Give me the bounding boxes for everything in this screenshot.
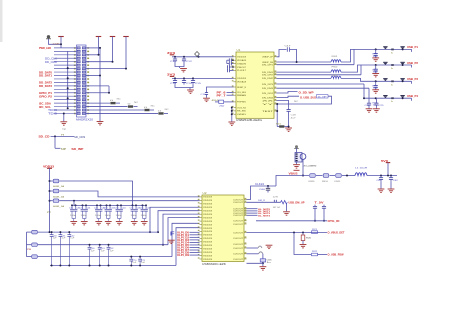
junction — [149, 231, 151, 233]
svg-text:2k0: 2k0 — [219, 105, 224, 107]
wire to FB4 — [50, 180, 53, 182]
junction — [231, 110, 233, 112]
wire to R12 — [86, 106, 128, 108]
svg-text:PLLFILT: PLLFILT — [237, 70, 247, 72]
resistor R12 — [128, 105, 133, 107]
wire to R15 — [215, 101, 219, 103]
capacitor C60 — [89, 245, 91, 266]
wire CPEN — [247, 253, 259, 255]
wire ULPI_D2 — [190, 236, 200, 238]
ground GND7 — [285, 128, 292, 131]
power flag VCC1V8 — [110, 36, 116, 38]
diode D13 — [383, 95, 387, 98]
junction — [288, 126, 290, 128]
svg-text:SD_CD9: SD_CD9 — [74, 135, 86, 139]
ground GND3 — [180, 69, 187, 72]
resistor R17 zigzag — [281, 201, 288, 204]
wire cap stub VBUS3 — [375, 81, 377, 83]
wire gnd stub left — [63, 113, 65, 121]
svg-text:CLKOUT: CLKOUT — [233, 215, 244, 217]
wire c64 low — [323, 208, 325, 221]
wire — [231, 108, 233, 122]
svg-text:GPIO_P1: GPIO_P1 — [39, 91, 53, 95]
wire DM out — [247, 201, 281, 203]
wire ID rail — [256, 220, 327, 222]
wire USBDN3 DM — [277, 87, 370, 89]
wire C16 gnd — [206, 94, 208, 97]
wire after R14 — [164, 112, 168, 114]
diode D10 — [383, 46, 387, 49]
wire CX3 — [230, 66, 234, 68]
capacitor CX4 horizontal — [228, 69, 230, 73]
diode D11 — [383, 62, 387, 65]
resistor hump RB1 — [258, 246, 262, 248]
svg-text:DN_DM1: DN_DM1 — [262, 72, 274, 74]
wire xtal gnd — [296, 162, 298, 164]
wire down — [54, 136, 56, 148]
wire to C18 — [277, 101, 289, 108]
wire cap stub VBUS2 — [375, 65, 377, 67]
capacitor C24 — [367, 101, 371, 107]
svg-text:C41: C41 — [87, 208, 91, 210]
svg-text:100p: 100p — [373, 88, 378, 90]
svg-text:O_USB_PSW: O_USB_PSW — [328, 253, 344, 257]
junction — [296, 61, 298, 63]
U1 left pin names — [237, 57, 247, 116]
svg-text:VDD33: VDD33 — [203, 207, 213, 209]
ground GND13 — [266, 245, 273, 248]
ground GND DM — [283, 212, 290, 215]
ground GND4 — [187, 90, 194, 93]
svg-text:600R_1A: 600R_1A — [53, 195, 65, 198]
diode D30 — [400, 46, 404, 49]
ground GND2 — [97, 122, 104, 125]
svg-text:k: k — [391, 84, 393, 86]
wire — [276, 104, 278, 127]
svg-text:XTALIN: XTALIN — [237, 62, 247, 65]
diode D23 — [391, 97, 394, 99]
junction — [267, 185, 269, 187]
wire STATUS1 — [277, 92, 298, 94]
junction — [67, 87, 69, 89]
wire to C65 — [262, 254, 264, 259]
svg-text:NC: NC — [165, 109, 170, 111]
inductor FB2 — [331, 70, 341, 72]
ground GNDc6 — [141, 222, 148, 225]
svg-text:DD_DAT2: DD_DAT2 — [39, 81, 53, 85]
svg-text:VDD33: VDD33 — [203, 252, 213, 254]
wire gnd stub — [179, 67, 181, 69]
wire pin row stub — [86, 85, 109, 87]
junction — [293, 232, 295, 234]
junction C50 — [51, 265, 53, 267]
svg-text:I2C_SCL: I2C_SCL — [39, 105, 51, 109]
crystal oscillator X1 — [295, 153, 302, 163]
capacitor C50 — [51, 232, 53, 265]
wire rail1 — [59, 181, 132, 205]
svg-text:DN_DP4: DN_DP4 — [262, 93, 274, 95]
ground GND1 — [60, 122, 67, 125]
junction — [145, 204, 147, 206]
ground GND8b — [373, 109, 380, 112]
svg-text:USB_P2: USB_P2 — [407, 61, 418, 65]
wire ULPI_D8 — [190, 252, 200, 254]
svg-text:DN_DP2: DN_DP2 — [262, 75, 274, 77]
svg-text:220R: 220R — [53, 44, 61, 46]
wire fan4 — [158, 211, 200, 232]
svg-text:100n: 100n — [131, 215, 137, 217]
wire — [26, 232, 28, 257]
junction — [231, 107, 233, 109]
wire gnd stub right — [99, 119, 101, 121]
wire VCCIO stub — [125, 37, 127, 69]
wire to R13 — [86, 109, 144, 111]
svg-text:SD_WP: SD_WP — [71, 147, 83, 151]
wire C65 gnd — [262, 263, 264, 266]
wire seg2 — [330, 175, 336, 177]
wire gnd stub pair 0 — [73, 219, 75, 222]
svg-text:USBUP_DP: USBUP_DP — [262, 57, 274, 59]
junction — [363, 97, 365, 99]
wire row end VBUS3 — [411, 81, 413, 84]
wire ULPI_D9 — [190, 254, 200, 256]
svg-text:DM_R: DM_R — [258, 200, 266, 202]
junction — [49, 180, 51, 182]
U1 right pin names — [262, 57, 276, 113]
wire pin row — [86, 75, 100, 77]
wire STATUS2 — [277, 96, 300, 97]
svg-text:VDD33: VDD33 — [203, 242, 213, 244]
svg-text:VDD33: VDD33 — [203, 211, 213, 213]
connector J1 body — [77, 45, 87, 117]
wire C24 gnd — [368, 107, 370, 108]
diode D21 — [391, 64, 394, 66]
capacitor C15 — [191, 78, 195, 84]
svg-text:VDD33: VDD33 — [203, 231, 213, 233]
wire stub down — [108, 86, 110, 93]
svg-text:CLKOUT: CLKOUT — [233, 202, 244, 204]
svg-text:O_USB_SUS: O_USB_SUS — [300, 95, 316, 99]
wire USBDN1_DM rail — [277, 74, 362, 76]
inductor L1 — [355, 173, 367, 176]
svg-text:NC: NC — [134, 102, 139, 104]
junction — [375, 80, 377, 82]
ferrite bead FB7 — [32, 230, 38, 234]
junction — [132, 204, 134, 206]
capacitor CX1 horizontal — [229, 58, 231, 62]
capacitor CX3 horizontal — [228, 65, 230, 69]
wire gnd stub pair 2 — [98, 219, 100, 222]
svg-text:CLKOUT: CLKOUT — [233, 259, 244, 261]
wire pin row to VCCIO — [86, 68, 126, 70]
capacitor C17 horizontal — [287, 47, 289, 52]
ground GNDc5 — [131, 222, 138, 225]
svg-text:F: F — [170, 232, 175, 238]
ferrite bead FB8 — [32, 243, 38, 247]
diode D12 — [383, 78, 387, 81]
junction — [375, 97, 377, 99]
ferrite bead FB6 — [53, 199, 59, 203]
resistor hump RB2 — [259, 252, 263, 254]
svg-text:C35: C35 — [130, 208, 134, 210]
capacitor C12 — [182, 57, 186, 63]
U2 left pin names — [203, 197, 213, 261]
svg-text:1k_NP: 1k_NP — [318, 96, 328, 98]
wire pin row to VCC1V8 — [86, 61, 113, 63]
wire USBUP_DP rail — [277, 61, 332, 63]
wire rail corner — [276, 176, 309, 187]
svg-text:PWR_LED: PWR_LED — [39, 46, 51, 50]
ground F gnd — [168, 240, 175, 243]
svg-text:GPIO_P2: GPIO_P2 — [39, 94, 53, 98]
wire VCC5V stub — [98, 37, 100, 55]
svg-text:TEST: TEST — [262, 111, 275, 113]
window edge strip — [0, 0, 3, 42]
svg-text:ULPI_D9: ULPI_D9 — [177, 255, 190, 257]
svg-text:100n: 100n — [105, 215, 111, 217]
ground GNDc1 — [81, 222, 88, 225]
ferrite bead FB4 — [53, 179, 59, 183]
junction — [390, 175, 392, 177]
wire vbus stub — [198, 56, 200, 57]
wire row VBUS4 — [364, 97, 412, 99]
svg-text:VDD33: VDD33 — [203, 200, 213, 202]
wire ULPI_D4 — [190, 241, 200, 243]
wire RESETB — [247, 247, 259, 249]
wire — [72, 204, 146, 206]
wire ULPI_D1 — [190, 234, 200, 236]
wire VBUS_DET — [247, 232, 328, 234]
connector J1 pins — [74, 47, 89, 115]
ground GND12 — [260, 267, 267, 270]
capacitor C21 — [374, 67, 378, 73]
diode D31 — [400, 62, 404, 65]
svg-text:RBIAS: RBIAS — [237, 94, 247, 97]
capacitor C65 — [260, 259, 265, 262]
junction — [375, 48, 377, 50]
svg-text:VDD33: VDD33 — [203, 235, 213, 237]
junction — [67, 107, 69, 109]
capacitor C62 — [108, 245, 110, 266]
svg-text:CLKOUT: CLKOUT — [233, 224, 244, 226]
wire fan5 — [163, 214, 200, 245]
junction — [117, 204, 119, 206]
svg-text:VDD33: VDD33 — [203, 228, 213, 230]
wire to FB5 — [50, 190, 53, 192]
capacitor pair C32a C32b — [97, 205, 101, 218]
svg-text:VDD33: VDD33 — [203, 249, 213, 251]
svg-text:OCS_N1: OCS_N1 — [237, 107, 247, 109]
junction gnd left — [63, 112, 65, 114]
svg-text:VDD18: VDD18 — [237, 78, 247, 80]
ferrite bead FB11 — [336, 174, 342, 178]
ferrite bead FB9 — [310, 174, 316, 178]
svg-text:CLKOUT: CLKOUT — [233, 254, 244, 256]
capacitor pair C35a C35b — [133, 205, 137, 218]
wire to FB8 — [27, 244, 32, 246]
svg-text:DN_DP1: DN_DP1 — [262, 65, 274, 67]
wire cap stub VBUS1 — [375, 49, 377, 51]
wire DM jog row1 — [353, 49, 355, 64]
capacitor pair C31a C31b — [83, 205, 87, 218]
svg-text:VDD33: VDD33 — [203, 204, 213, 206]
wire C60 stub — [267, 186, 269, 188]
capacitor C52 — [68, 232, 70, 265]
wire rail C — [38, 256, 172, 258]
junction — [99, 75, 101, 77]
svg-text:100n: 100n — [95, 215, 101, 217]
junction C71 — [139, 265, 141, 267]
svg-text:DN_DM3: DN_DM3 — [262, 88, 274, 90]
junction C70 — [130, 265, 132, 267]
ground GNDc2 — [95, 222, 102, 225]
junction — [157, 231, 159, 233]
wire ULPI_D5 — [190, 244, 200, 246]
wire C60 low — [267, 190, 269, 192]
wire down net — [294, 233, 311, 255]
capacitor C51 — [59, 232, 61, 265]
wire gnd stub DM — [286, 204, 288, 212]
junction — [402, 48, 404, 50]
ground GND row1 — [372, 58, 379, 61]
svg-text:CLKOUT: CLKOUT — [233, 199, 244, 201]
junction — [162, 244, 164, 246]
capacitor CX2 horizontal — [229, 62, 231, 66]
junction C60 — [89, 265, 91, 267]
ground GND5 — [203, 98, 210, 101]
wire after R12 — [134, 106, 138, 108]
resistor R15 — [219, 100, 224, 103]
inductor FB3 — [331, 76, 341, 78]
U2 right pin stubs — [244, 198, 247, 259]
wire RESET — [207, 87, 234, 93]
U2 right pin names — [233, 199, 244, 260]
svg-text:C32: C32 — [94, 208, 98, 210]
junction — [67, 77, 69, 79]
wire c63 low — [314, 208, 316, 221]
junction — [108, 92, 110, 94]
svg-text:C31: C31 — [80, 208, 84, 210]
wire dat0 — [247, 208, 258, 210]
capacitor pair C36a C36b — [143, 205, 147, 218]
wire after R16 — [284, 126, 288, 128]
junction — [323, 220, 325, 222]
svg-text:USBUP_DM: USBUP_DM — [262, 62, 273, 64]
wire rail to caps — [367, 175, 397, 177]
svg-text:VDDA33: VDDA33 — [237, 59, 247, 62]
wire vertical bus CX — [226, 60, 228, 63]
capacitor C18 — [287, 107, 291, 113]
svg-text:USB_DM_UP: USB_DM_UP — [289, 201, 305, 205]
svg-text:NC: NC — [151, 106, 156, 108]
wire XTAL loop up — [277, 50, 287, 57]
svg-text:C30: C30 — [69, 208, 73, 210]
wire RBIAS net — [277, 126, 279, 128]
svg-text:100n: 100n — [141, 215, 147, 217]
svg-text:VDD33: VDD33 — [203, 245, 213, 247]
wire ULPI_D0 — [190, 231, 200, 233]
ground GND8a — [366, 109, 373, 112]
junction C65 — [262, 262, 264, 264]
capacitor C63 — [313, 206, 317, 208]
wire USBDN1_DP rail — [277, 71, 332, 73]
svg-text:VDD33: VDD33 — [203, 259, 213, 261]
svg-text:100p: 100p — [373, 56, 378, 58]
diode D20 — [391, 49, 394, 51]
wire C18 gnd — [288, 114, 290, 128]
wire to FB9b — [27, 256, 32, 258]
capacitor C70 — [130, 257, 132, 266]
wire ULPI_D3 — [190, 239, 200, 241]
wire VCC1V8 stub — [112, 37, 114, 62]
ferrite bead FB10 — [323, 174, 329, 178]
junction C52 — [68, 265, 70, 267]
op IC U1 body — [236, 52, 274, 118]
capacitor C22 — [374, 83, 378, 89]
wire gnd stub pair 4 — [118, 219, 120, 222]
junction — [67, 67, 69, 69]
ground GND9 — [378, 189, 385, 192]
junction — [82, 204, 84, 206]
wire R20 stub — [302, 233, 304, 236]
svg-text:USB_P3: USB_P3 — [407, 77, 418, 81]
junction — [402, 80, 404, 82]
wire CX4 — [230, 69, 234, 71]
svg-text:VDD33: VDD33 — [203, 217, 213, 219]
svg-text:O_SD_WP: O_SD_WP — [299, 90, 314, 94]
wire C62 gnd — [390, 182, 392, 189]
wire dat1 — [247, 210, 258, 212]
wire — [50, 265, 176, 267]
capacitor C20 — [374, 51, 378, 57]
wire to FB7 — [27, 231, 32, 233]
capacitor C11 — [173, 57, 177, 63]
junction — [192, 77, 194, 79]
junction — [402, 64, 404, 66]
junction — [387, 175, 389, 177]
svg-text:HS_IND: HS_IND — [237, 111, 247, 113]
capacitor C13 — [173, 78, 177, 84]
diode D32 — [400, 78, 404, 81]
ground GNDc0 — [70, 222, 77, 225]
junction — [276, 103, 278, 105]
capacitor pair C34a C34b — [118, 205, 122, 218]
ferrite bead FB9b — [32, 255, 38, 259]
svg-text:RESET_N: RESET_N — [237, 87, 247, 89]
svg-text:DD_DAT0: DD_DAT0 — [39, 70, 53, 74]
junction — [75, 204, 77, 206]
junction — [100, 204, 102, 206]
wire DP3 down — [363, 84, 365, 98]
ground GNDc4 — [116, 222, 123, 225]
svg-text:600R_1A: 600R_1A — [53, 185, 65, 188]
U1 right pin stubs — [274, 55, 277, 111]
ground GND row3 — [372, 90, 379, 93]
power flag 5V0 — [386, 162, 391, 164]
wire to row2 — [341, 65, 371, 72]
wire pin2 top — [86, 47, 100, 49]
capacitor C71 — [139, 257, 141, 266]
wire seg3 — [342, 175, 355, 177]
svg-text:CLKOUT: CLKOUT — [233, 232, 244, 234]
svg-text:VDDA18: VDDA18 — [237, 81, 247, 84]
wire DM3 down — [368, 88, 370, 101]
junction — [85, 204, 87, 206]
U1 left pin stubs — [232, 55, 236, 114]
wire after R13 — [150, 109, 154, 111]
junction — [106, 204, 108, 206]
power flag X1 — [295, 145, 298, 148]
